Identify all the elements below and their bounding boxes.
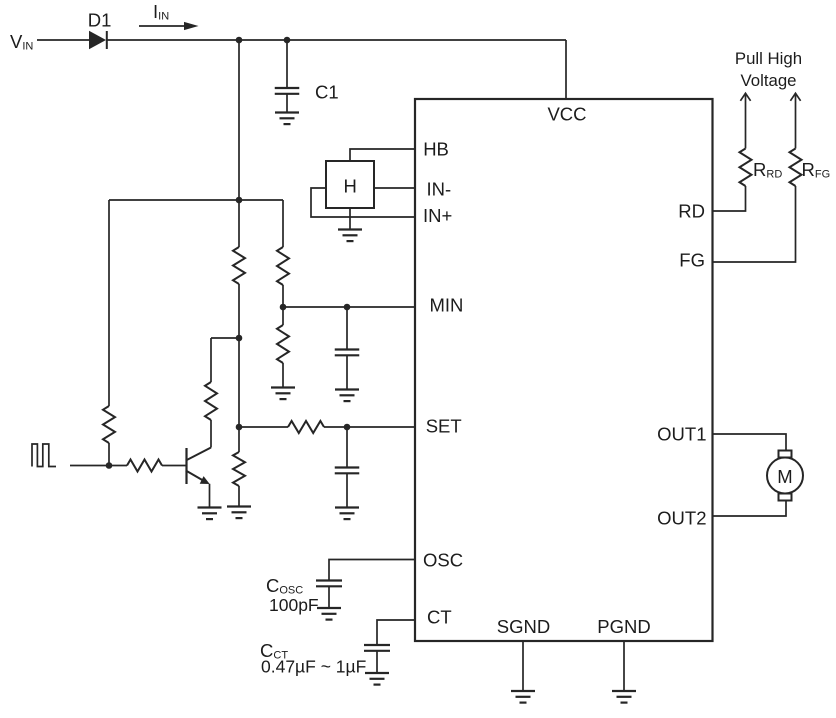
wire CCT to ground — [376, 651, 378, 673]
capacitor C1 — [275, 88, 300, 94]
wire VCC rail down to IC VCC pin — [565, 40, 567, 99]
resistor RRD — [740, 149, 752, 187]
pin label OUT2 — [657, 508, 706, 529]
label M — [777, 466, 792, 487]
svg-text:IIN: IIN — [153, 1, 169, 23]
motor bottom terminal — [779, 494, 792, 501]
resistor base pull-up (x109) — [103, 406, 115, 443]
wire CT pin to CCT — [377, 620, 415, 645]
svg-text:SET: SET — [426, 416, 462, 437]
wire RFG to FG pin — [713, 186, 796, 262]
junction SET cap (347,427) — [344, 424, 351, 431]
wire MIN cap to ground — [346, 355, 348, 389]
ground under CCT — [365, 673, 389, 685]
label D1 — [88, 9, 112, 30]
pin label HB — [423, 139, 449, 160]
pin label IN- — [427, 179, 452, 200]
pin label OSC — [423, 550, 463, 571]
wire SGND to ground — [522, 641, 524, 691]
label C1 — [315, 82, 339, 103]
svg-text:VCC: VCC — [547, 104, 586, 125]
ground under SGND — [511, 691, 535, 703]
pin label SGND — [497, 616, 550, 637]
pin label RD — [678, 201, 705, 222]
motor top terminal — [779, 451, 792, 458]
wire SET resistor to IC SET pin — [324, 426, 415, 428]
ground under PGND — [612, 691, 636, 703]
wire x283 node row to resistor — [282, 200, 284, 247]
wire OUT1 to motor — [713, 434, 787, 451]
wire H bottom to ground — [349, 208, 351, 230]
resistor base series — [127, 460, 162, 472]
pin label FG — [679, 250, 705, 271]
resistor SET series — [288, 421, 324, 433]
svg-text:OSC: OSC — [423, 550, 463, 571]
junction MIN node (283,307) — [280, 304, 287, 311]
IC U1 outline — [415, 99, 713, 641]
ground under SET cap — [335, 508, 359, 520]
junction collector node (239,338) — [236, 335, 243, 342]
arrow IIN current direction — [139, 22, 199, 30]
wire SET cap to ground — [346, 473, 348, 507]
wire x239 resistor to SET node — [238, 284, 240, 452]
capacitor MIN filter — [335, 350, 360, 356]
resistor RFG — [790, 149, 802, 187]
transistor Q1 emitter with arrow — [186, 471, 210, 485]
wire resistor to collector — [210, 420, 212, 448]
resistor below SET node (x239) — [233, 452, 245, 486]
svg-text:PGND: PGND — [597, 616, 650, 637]
wire x239 rail down to node row — [238, 40, 240, 200]
svg-text:Pull High: Pull High — [735, 49, 802, 68]
label COSC — [266, 575, 303, 597]
junction input node (109,465.5) — [106, 462, 113, 469]
svg-text:RFG: RFG — [802, 159, 831, 181]
wire collector link down — [210, 338, 212, 382]
pin label IN+ — [423, 205, 452, 226]
label CCT — [260, 640, 288, 662]
ground under emitter — [198, 508, 222, 520]
svg-text:FG: FG — [679, 250, 705, 271]
junction at (239,200) — [236, 197, 243, 204]
wire input node to base resistor — [70, 465, 127, 467]
transistor Q1 base bar — [185, 448, 187, 484]
ground under H — [338, 230, 362, 242]
wire collector node link y=338 — [211, 337, 239, 339]
junction SET node (239,427) — [236, 424, 243, 431]
motor M body — [767, 458, 803, 494]
svg-text:100pF: 100pF — [269, 595, 319, 615]
pin label CT — [427, 607, 452, 628]
svg-text:RRD: RRD — [753, 159, 782, 181]
svg-text:MIN: MIN — [430, 295, 464, 316]
wire OUT2 to motor — [713, 501, 787, 517]
wire SET node down to cap — [346, 427, 348, 468]
capacitor COSC — [316, 581, 342, 587]
transistor Q1 collector — [186, 448, 211, 461]
svg-text:M: M — [777, 466, 792, 487]
junction MIN cap (347,307) — [344, 304, 351, 311]
svg-text:CT: CT — [427, 607, 452, 628]
capacitor CCT — [364, 645, 390, 651]
wire H right to IN- pin — [374, 187, 415, 189]
wire to ground x283 — [282, 363, 284, 388]
svg-text:HB: HB — [423, 139, 449, 160]
pin label PGND — [597, 616, 650, 637]
ground under C1 — [275, 113, 299, 125]
pin label MIN — [430, 295, 464, 316]
capacitor SET filter — [335, 468, 360, 474]
resistor MIN divider lower (x283) — [277, 325, 289, 363]
label 0.47uF - 1uF — [261, 657, 366, 677]
wire horizontal node row y=200 — [109, 199, 283, 201]
resistor divider upper (x239) — [233, 247, 245, 284]
node VIN label — [10, 31, 33, 53]
hall sensor H box — [326, 161, 374, 208]
resistor collector (x211) — [205, 382, 217, 420]
wire VIN to diode anode — [37, 39, 89, 41]
pin label VCC — [547, 104, 586, 125]
wire rail to C1 — [286, 40, 288, 88]
wire x283 resistor to MIN node — [282, 285, 284, 325]
resistor MIN divider upper (x283) — [277, 247, 289, 285]
wire to ground x239 — [238, 486, 240, 507]
wire resistor to input node — [108, 443, 110, 466]
svg-text:IN+: IN+ — [423, 205, 452, 226]
svg-text:VIN: VIN — [10, 31, 33, 53]
svg-text:D1: D1 — [88, 9, 112, 30]
label H — [344, 176, 357, 197]
wire H top to HB pin — [350, 149, 415, 161]
pin label SET — [426, 416, 462, 437]
svg-text:COSC: COSC — [266, 575, 303, 597]
label RFG — [802, 159, 831, 181]
svg-text:C1: C1 — [315, 82, 339, 103]
wire diode cathode to VCC rail — [107, 39, 566, 41]
arrow pull-high RD — [740, 93, 750, 149]
wire x239 node row to resistor — [238, 200, 240, 247]
pin label OUT1 — [657, 423, 706, 444]
svg-text:0.47µF ~ 1µF: 0.47µF ~ 1µF — [261, 657, 366, 677]
pulse input waveform symbol — [32, 444, 56, 467]
svg-text:Voltage: Voltage — [741, 71, 797, 90]
wire left branch down — [108, 200, 110, 406]
wire OSC pin to COSC — [329, 560, 415, 581]
wire emitter down — [209, 484, 211, 508]
wire base resistor to base — [162, 465, 187, 467]
ground under COSC — [317, 608, 341, 620]
ground under x239 resistor — [227, 507, 251, 519]
wire RRD to RD pin — [713, 186, 746, 211]
arrow pull-high FG — [790, 93, 800, 149]
wire PGND to ground — [623, 641, 625, 691]
junction at x=239 on VCC rail — [236, 37, 243, 44]
svg-text:H: H — [344, 176, 357, 197]
label 100pF — [269, 595, 319, 615]
wire COSC to ground — [328, 586, 330, 608]
diode D1 — [89, 31, 107, 50]
svg-text:OUT2: OUT2 — [657, 508, 706, 529]
label Pull High Voltage — [735, 49, 802, 90]
wire MIN node to IC MIN pin — [283, 306, 415, 308]
wire MIN node down to cap — [346, 307, 348, 350]
junction at x=287 on VCC rail — [284, 37, 291, 44]
svg-text:SGND: SGND — [497, 616, 550, 637]
wire C1 to ground — [286, 94, 288, 113]
svg-text:OUT1: OUT1 — [657, 423, 706, 444]
label RRD — [753, 159, 782, 181]
ground under MIN cap — [335, 390, 359, 402]
label IIN — [153, 1, 169, 23]
ground under MIN divider — [271, 388, 295, 400]
wire SET node to resistor — [239, 426, 288, 428]
svg-text:RD: RD — [678, 201, 705, 222]
wire H left to IN+ pin — [311, 188, 415, 217]
svg-text:IN-: IN- — [427, 179, 452, 200]
